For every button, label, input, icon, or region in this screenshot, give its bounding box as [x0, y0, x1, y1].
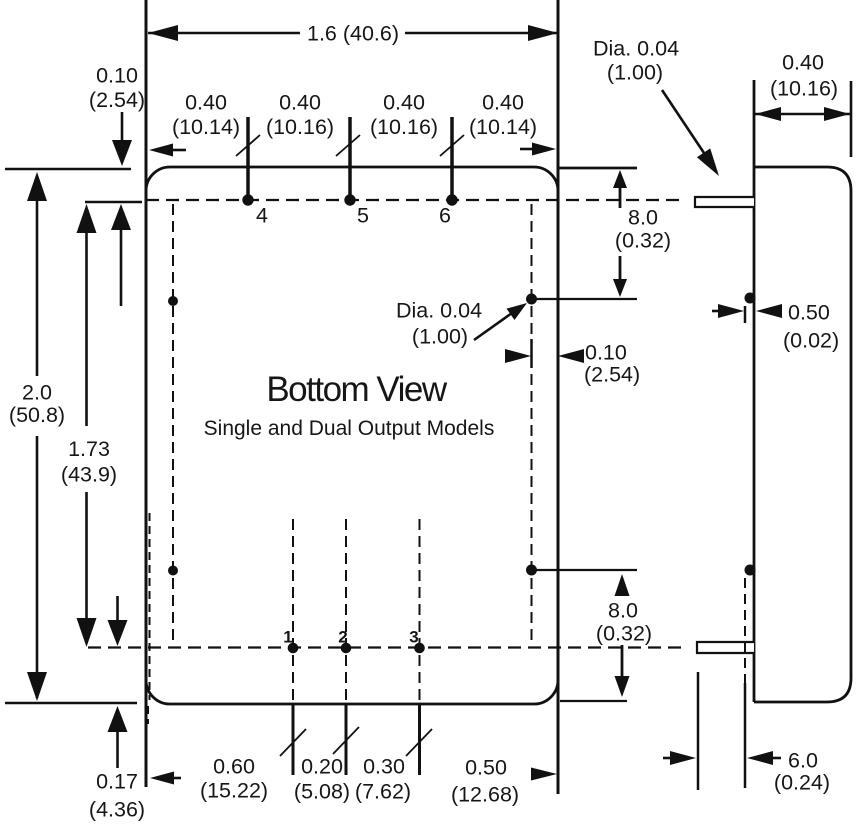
- svg-text:(10.16): (10.16): [266, 115, 334, 139]
- svg-text:(4.36): (4.36): [89, 798, 145, 822]
- svg-text:0.20: 0.20: [301, 755, 343, 779]
- svg-text:(7.62): (7.62): [355, 780, 411, 804]
- svg-text:6: 6: [439, 204, 451, 228]
- svg-text:0.10: 0.10: [96, 64, 138, 88]
- extension line through right side pin lower: [536, 569, 637, 571]
- bottom pin 2 extension line with slash: [345, 704, 348, 775]
- side view right extension line: [850, 81, 853, 157]
- pin 6 extension line with slash: [450, 117, 454, 195]
- leader arrow Dia left: [474, 313, 512, 340]
- left extension line: [145, 0, 148, 787]
- pin 5 extension line with slash: [348, 117, 352, 195]
- side view dashed pin line: [744, 578, 746, 683]
- svg-text:2: 2: [338, 628, 347, 647]
- svg-text:0.40: 0.40: [482, 91, 524, 115]
- extension line top edge left: [5, 168, 131, 171]
- svg-text:(1.00): (1.00): [412, 325, 468, 349]
- side view pin dot lower: [745, 565, 756, 576]
- extension line through right side pin upper: [536, 298, 637, 300]
- svg-text:(0.32): (0.32): [596, 622, 652, 646]
- side view left edge: [753, 80, 756, 702]
- svg-text:0.40: 0.40: [185, 91, 227, 115]
- dashed column pin 1: [292, 519, 294, 703]
- dimension 1.6 (40.6) line: [148, 32, 300, 35]
- side view top pin: [695, 197, 754, 207]
- dimension 8.0 (0.32) top right: [619, 186, 622, 208]
- svg-text:(12.68): (12.68): [451, 783, 519, 807]
- svg-text:0.10: 0.10: [585, 341, 627, 365]
- dimension 6.0 (0.24) extension lines: [697, 672, 700, 790]
- svg-text:(0.02): (0.02): [783, 329, 839, 353]
- svg-text:0.40: 0.40: [782, 51, 824, 75]
- bottom pin 3 extension line with slash: [418, 704, 421, 775]
- svg-text:1: 1: [283, 628, 292, 647]
- svg-text:0.30: 0.30: [363, 755, 405, 779]
- dimension 0.10 (2.54) arrows top left: [121, 112, 124, 142]
- dashed right pin column: [531, 204, 533, 643]
- dashed column pin 2: [345, 519, 347, 703]
- arrow to right package edge (0.40 row): [520, 148, 534, 151]
- right side pin dot upper: [527, 294, 537, 304]
- svg-text:Bottom View: Bottom View: [266, 370, 448, 409]
- pin 2 dot: [341, 643, 351, 653]
- bottom pin 1 extension line with slash: [292, 704, 295, 775]
- left side pin dot upper: [169, 297, 178, 306]
- svg-text:(0.24): (0.24): [774, 771, 830, 795]
- svg-text:8.0: 8.0: [628, 206, 658, 230]
- svg-text:3: 3: [409, 628, 418, 647]
- svg-text:(50.8): (50.8): [9, 403, 65, 427]
- svg-text:(10.16): (10.16): [770, 77, 838, 101]
- svg-text:(5.08): (5.08): [294, 780, 350, 804]
- extension line bottom edge left: [5, 702, 137, 705]
- package outline bottom view: [146, 167, 558, 704]
- dimension 0.40 (10.16) side view: [755, 113, 850, 116]
- svg-text:6.0: 6.0: [788, 749, 818, 773]
- arrow to left package edge (0.40 row): [170, 149, 186, 152]
- svg-text:5: 5: [357, 204, 369, 228]
- extension line pin row left: [85, 201, 142, 204]
- arrow to right edge bottom (0.50 row): [531, 768, 557, 781]
- pin 6 dot: [447, 195, 457, 205]
- svg-text:(15.22): (15.22): [200, 779, 268, 803]
- side view outline: [754, 167, 851, 702]
- svg-text:Dia. 0.04: Dia. 0.04: [396, 299, 482, 323]
- pin 5 dot: [345, 195, 355, 205]
- svg-text:1.73: 1.73: [68, 437, 110, 461]
- dashed line near left edge: [149, 513, 151, 700]
- left side pin dot lower: [169, 566, 178, 575]
- svg-text:2.0: 2.0: [22, 381, 52, 405]
- svg-text:(10.14): (10.14): [469, 115, 537, 139]
- leader arrow Dia top right: [662, 90, 706, 156]
- pin 1 dot: [288, 643, 298, 653]
- dimension 0.10 (2.54) right arrows: [530, 339, 533, 368]
- dimension 0.17 (4.36) arrows bottom left: [116, 596, 119, 622]
- svg-text:Single and Dual Output Models: Single and Dual Output Models: [204, 417, 495, 440]
- svg-text:(43.9): (43.9): [61, 463, 117, 487]
- svg-text:(2.54): (2.54): [89, 88, 145, 112]
- arrow to left edge bottom (0.60 row): [172, 777, 181, 780]
- dashed column pin 3: [419, 519, 421, 703]
- svg-text:0.17: 0.17: [96, 770, 138, 794]
- svg-text:0.60: 0.60: [213, 755, 255, 779]
- extension line bottom edge right: [560, 700, 627, 702]
- right extension line: [557, 0, 560, 794]
- dimension 8.0 (0.32) bottom right: [615, 574, 630, 596]
- svg-text:0.40: 0.40: [279, 91, 321, 115]
- pin 4 extension line with slash: [246, 117, 250, 195]
- svg-text:0.50: 0.50: [788, 301, 830, 325]
- svg-text:1.6 (40.6): 1.6 (40.6): [307, 22, 399, 46]
- svg-text:(1.00): (1.00): [607, 61, 663, 85]
- dashed left pin column: [172, 204, 174, 643]
- svg-text:4: 4: [256, 204, 268, 228]
- right side pin dot lower: [527, 565, 537, 575]
- dashed top pin row: [146, 199, 682, 201]
- svg-text:8.0: 8.0: [608, 599, 638, 623]
- svg-text:(10.16): (10.16): [370, 115, 438, 139]
- pin 4 dot: [243, 195, 253, 205]
- dimension 1.73 (43.9) line: [85, 208, 88, 426]
- dimension 2.0 (50.8) line: [36, 176, 39, 376]
- side view pin dot upper: [745, 293, 756, 304]
- svg-text:(2.54): (2.54): [584, 363, 640, 387]
- svg-text:(0.32): (0.32): [615, 229, 671, 253]
- svg-text:0.50: 0.50: [465, 756, 507, 780]
- extension line top edge right: [559, 167, 637, 170]
- svg-text:0.40: 0.40: [383, 91, 425, 115]
- svg-text:Dia. 0.04: Dia. 0.04: [593, 37, 679, 61]
- svg-text:(10.14): (10.14): [172, 115, 240, 139]
- dashed bottom pin row: [88, 646, 682, 648]
- side view bottom pin: [697, 642, 754, 653]
- pin 3 dot: [415, 643, 425, 653]
- dimension 0.50 (0.02) side view: [744, 306, 747, 323]
